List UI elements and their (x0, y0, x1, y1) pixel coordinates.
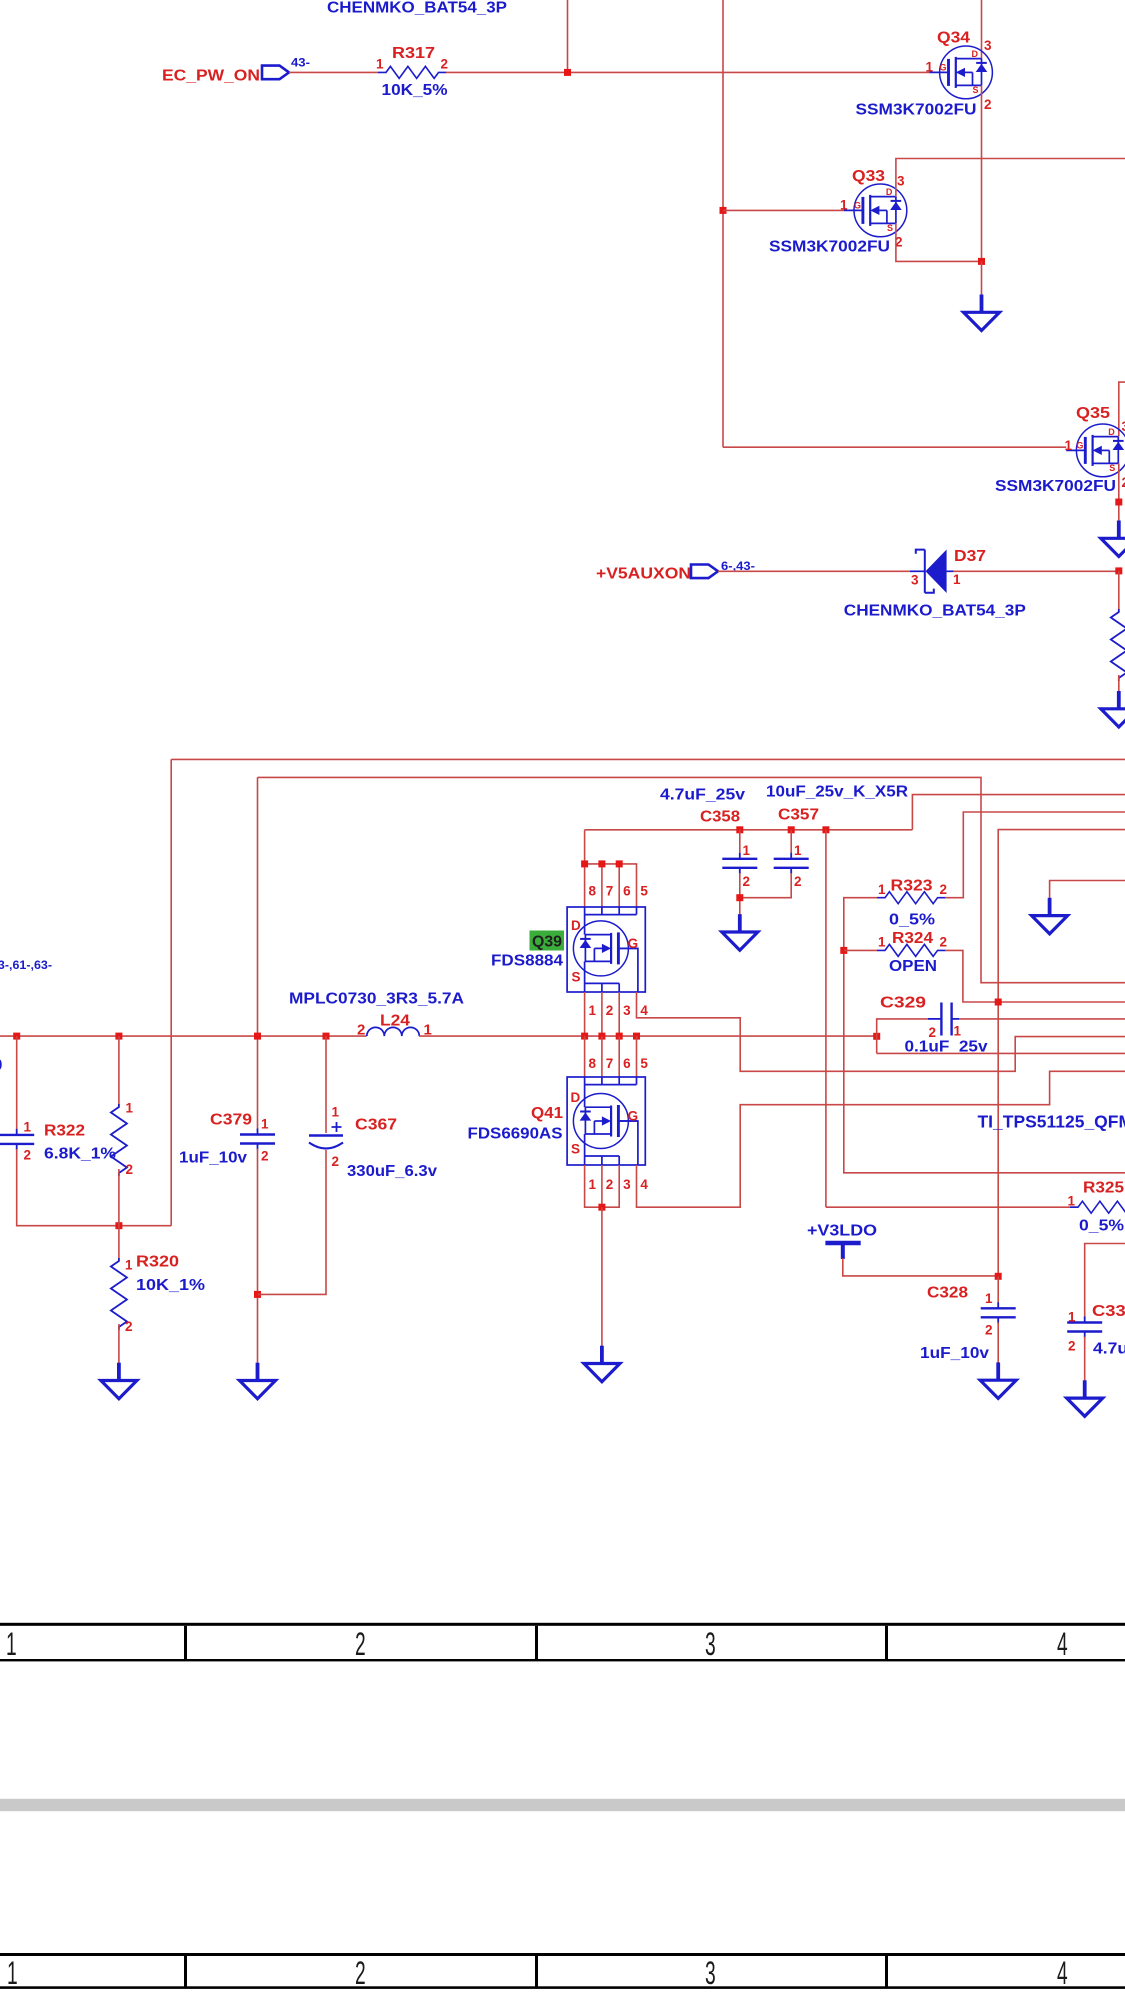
svg-text:3: 3 (984, 38, 992, 53)
svg-text:2: 2 (940, 882, 948, 897)
junction SW C379 (254, 1033, 261, 1040)
svg-text:G: G (940, 63, 947, 73)
junction V3LDO C328 (995, 1273, 1002, 1280)
svg-text:+V5AUXON: +V5AUXON (596, 566, 691, 583)
svg-text:SSM3K7002FU: SSM3K7002FU (856, 102, 977, 119)
wire R317 to Q34 gate (446, 71, 929, 73)
ground below C379 (240, 1363, 276, 1399)
transistor Q39 internal (573, 921, 637, 976)
svg-text:R323: R323 (891, 878, 933, 895)
junction at Q33 gate branch (720, 207, 727, 214)
svg-text:R320: R320 (136, 1254, 179, 1271)
capacitor C379 (240, 1129, 275, 1150)
svg-text:2: 2 (355, 1626, 366, 1662)
wire EC_PW_ON to R317 (289, 71, 378, 73)
svg-text:1: 1 (1068, 1310, 1076, 1325)
wire Q34 source down (981, 85, 983, 261)
wire rail y=777 (258, 777, 1125, 982)
svg-text:L24: L24 (380, 1013, 410, 1030)
svg-text:EC_PW_ON: EC_PW_ON (162, 68, 260, 85)
wire Q39 pin8 stub (584, 864, 586, 907)
wire to ground (981, 261, 983, 295)
wire Q39 pin1 stub (584, 992, 586, 1036)
svg-text:43-,61-,63-: 43-,61-,63- (0, 960, 52, 972)
wire L24 to Q39/Q41 pins (419, 1035, 877, 1037)
svg-text:2: 2 (357, 1022, 365, 1039)
capacitor C357 (774, 853, 809, 874)
wire R322 top lead (118, 1036, 120, 1104)
wire resistor to ground (1118, 675, 1120, 692)
diode D37 (910, 550, 954, 594)
wire R323 pin1 left (844, 898, 1125, 1173)
junction SW Q pin d (633, 1033, 640, 1040)
svg-text:10K_5%: 10K_5% (382, 82, 448, 99)
ground below R320 (101, 1363, 137, 1399)
wire C379 vertical x=257.5 (257, 777, 259, 1129)
wire V3LDO rail (998, 830, 1125, 1277)
port symbol +V5AUXON (691, 565, 718, 579)
wire +V5AUXON to D37 (718, 570, 910, 572)
wire Q39 pin3 stub (618, 992, 620, 1036)
resistor R323 (877, 892, 946, 904)
svg-text:1: 1 (24, 1120, 32, 1135)
wire Q35 gate (723, 446, 1066, 448)
wire Q41 source pins to ground (585, 1165, 620, 1207)
wire down to resistor (1118, 571, 1120, 609)
inductor L24 (367, 1027, 420, 1036)
svg-text:Q35: Q35 (1076, 405, 1110, 422)
svg-text:2: 2 (126, 1162, 134, 1177)
junction bottom rail (115, 1222, 122, 1229)
junction Q41 source (598, 1204, 605, 1211)
junction SW R322 (115, 1033, 122, 1040)
junction R325 branch (822, 826, 829, 833)
wire +V3LDO to C328 node (843, 1258, 998, 1276)
resistor R322 (111, 1104, 127, 1176)
resistor at right edge (cropped) (1111, 609, 1125, 681)
svg-text:2: 2 (261, 1149, 269, 1164)
svg-text:2: 2 (1122, 475, 1125, 490)
junction D37 output (1115, 567, 1122, 574)
svg-text:1: 1 (743, 843, 751, 858)
svg-text:2: 2 (940, 934, 948, 949)
svg-text:1: 1 (985, 1291, 993, 1306)
svg-text:Q33: Q33 (852, 168, 885, 185)
svg-text:2: 2 (332, 1154, 340, 1169)
svg-text:2: 2 (24, 1148, 32, 1163)
svg-text:R324: R324 (892, 930, 933, 947)
svg-text:C379: C379 (210, 1112, 252, 1129)
wire SW node main rail (0, 1035, 367, 1037)
svg-text:S: S (887, 223, 893, 233)
wire R322 bottom lead (118, 1169, 120, 1226)
wire C329 pin1 to chip (959, 1018, 1125, 1020)
svg-text:R322: R322 (44, 1123, 85, 1140)
svg-text:10uF_25v_K_X5R: 10uF_25v_K_X5R (766, 784, 908, 801)
wire C379 bottom lead (257, 1149, 259, 1364)
svg-text:1: 1 (126, 1101, 134, 1116)
ground right side (1032, 898, 1068, 934)
transistor Q35 (1066, 424, 1125, 477)
wire D37 to right edge node (954, 570, 1119, 572)
component box Q41 (567, 1077, 645, 1165)
svg-text:6: 6 (623, 884, 631, 899)
page gap gray bar (0, 1799, 1125, 1811)
svg-text:2: 2 (125, 1319, 133, 1334)
svg-text:G: G (854, 201, 861, 211)
junction R323/R324 left (840, 947, 847, 954)
wire C358 bottom lead (739, 873, 741, 915)
wire Q39 gate (pin4) route (637, 992, 1125, 1071)
svg-text:1: 1 (125, 1258, 133, 1273)
svg-text:D: D (886, 187, 893, 197)
svg-text:4: 4 (640, 1177, 648, 1192)
svg-text:3: 3 (705, 1626, 716, 1662)
svg-text:1: 1 (953, 572, 961, 587)
wire vertical x=723 from top to Q35 gate row (722, 0, 724, 447)
svg-text:1: 1 (954, 1024, 962, 1039)
capacitor C358 (722, 853, 757, 874)
wire C328 to ground (997, 1322, 999, 1363)
capacitor C329 (series) (928, 1003, 959, 1036)
junction pin6 (616, 860, 623, 867)
svg-text:C358: C358 (700, 809, 740, 826)
svg-text:0_5%: 0_5% (889, 912, 935, 929)
svg-text:G: G (1076, 441, 1083, 451)
resistor R325 (cropped) (1070, 1201, 1125, 1213)
port symbol EC_PW_ON (262, 66, 289, 80)
svg-text:C357: C357 (778, 807, 819, 824)
svg-text:1: 1 (376, 57, 384, 72)
svg-text:4.7uF_10: 4.7uF_10 (1093, 1341, 1125, 1358)
junction SW C329 (873, 1033, 880, 1040)
svg-text:D: D (571, 1090, 581, 1105)
wire ground branch right side (1050, 881, 1125, 899)
wire Q34 drain from top (981, 0, 983, 59)
wire cap top rail y=829.8 (585, 829, 913, 831)
junction Q33/Q34 source (978, 258, 985, 265)
svg-text:MPLC0730_3R3_5.7A: MPLC0730_3R3_5.7A (289, 991, 464, 1008)
svg-text:1: 1 (589, 1003, 597, 1018)
svg-text:C329: C329 (880, 995, 926, 1012)
svg-text:1uF_10v: 1uF_10v (179, 1150, 247, 1167)
svg-text:3: 3 (623, 1003, 631, 1018)
capacitor C367 (309, 1122, 343, 1149)
wire Q35 source down (1118, 463, 1120, 521)
page border row 2 (0, 1953, 1125, 1989)
svg-text:1: 1 (589, 1177, 597, 1192)
wire Q41 pin8 stub (584, 1036, 586, 1077)
svg-text:FDS8884: FDS8884 (491, 953, 563, 970)
svg-text:330uF_6.3v: 330uF_6.3v (347, 1163, 437, 1180)
svg-text:SSM3K7002FU: SSM3K7002FU (769, 239, 890, 256)
junction V3LDO/R324 (995, 999, 1002, 1006)
svg-text:4.7uF_25v: 4.7uF_25v (660, 787, 745, 804)
svg-text:G: G (628, 1109, 639, 1124)
ground below Q41 (584, 1346, 620, 1382)
wire Q41 pin5 stub (636, 1036, 638, 1077)
wire C330 to ground (1084, 1337, 1086, 1381)
wire vertical x=171 to bottom rail (170, 759, 172, 1225)
svg-text:1: 1 (261, 1117, 269, 1132)
wire C357 bottom lead (740, 873, 791, 898)
svg-text:D: D (1108, 427, 1115, 437)
wire stub top at x=567.5 (567, 0, 569, 72)
svg-text:5: 5 (640, 884, 648, 899)
capacitor C328 (981, 1302, 1016, 1323)
svg-text:OPEN: OPEN (889, 958, 937, 975)
junction SW Q pin b (598, 1033, 605, 1040)
transistor Q33 (844, 184, 907, 237)
svg-text:4: 4 (640, 1003, 648, 1018)
wire C328 top lead (997, 1276, 999, 1304)
wire Q41 ground lead (601, 1207, 603, 1346)
svg-text:1: 1 (794, 843, 802, 858)
junction C358 top (736, 826, 743, 833)
svg-text:2: 2 (441, 56, 449, 71)
svg-text:1: 1 (878, 882, 886, 897)
wire R323 pin2 right (945, 812, 1125, 898)
svg-text:D: D (571, 918, 581, 933)
svg-text:C328: C328 (927, 1285, 968, 1302)
ground below Q35 (1101, 521, 1125, 557)
svg-text:3: 3 (911, 573, 919, 588)
svg-text:4: 4 (1057, 1626, 1068, 1662)
svg-text:1: 1 (7, 1955, 18, 1991)
svg-text:+V3LDO: +V3LDO (807, 1223, 877, 1240)
wire Q35 drain up and right (1119, 382, 1125, 436)
svg-text:S: S (571, 1142, 580, 1157)
wire Q41 gate (pin4) route (637, 1071, 1125, 1207)
highlight Q39 (530, 931, 565, 951)
wire SW sense to chip (877, 1052, 1125, 1054)
svg-text:0: 0 (0, 1057, 3, 1074)
svg-text:3: 3 (705, 1955, 716, 1991)
svg-text:R325: R325 (1083, 1180, 1124, 1197)
ground below C358/C357 (722, 914, 758, 950)
svg-text:2: 2 (355, 1955, 366, 1991)
wire Q41 pin6 stub (618, 1036, 620, 1077)
svg-text:6: 6 (623, 1056, 631, 1071)
wire Q41 pin7 stub (601, 1036, 603, 1077)
wire SW to C329 pin2 (877, 1019, 928, 1054)
junction C357 top (788, 826, 795, 833)
junction C358 bottom (736, 894, 743, 901)
junction SW Q pin a (581, 1033, 588, 1040)
junction SW C367 (323, 1033, 330, 1040)
svg-text:2: 2 (794, 874, 802, 889)
ground below C330 (1067, 1380, 1103, 1416)
svg-text:D37: D37 (954, 548, 986, 565)
wire left cap bottom lead (17, 1149, 172, 1226)
wire Q39 pin2 stub (601, 992, 603, 1036)
ground below Q33/Q34 (964, 295, 1000, 331)
svg-text:Q34: Q34 (937, 30, 970, 47)
svg-text:S: S (973, 85, 979, 95)
svg-text:1: 1 (840, 198, 848, 213)
wire Q33 gate (723, 209, 844, 211)
svg-text:2: 2 (606, 1003, 614, 1018)
svg-text:2: 2 (985, 1323, 993, 1338)
svg-text:10K_1%: 10K_1% (136, 1277, 205, 1294)
svg-text:1: 1 (1065, 438, 1073, 453)
junction Q35 source (1115, 499, 1122, 506)
svg-text:S: S (1109, 463, 1115, 473)
svg-text:TI_TPS51125_QFM20: TI_TPS51125_QFM20 (978, 1112, 1125, 1132)
svg-text:CHENMKO_BAT54_3P: CHENMKO_BAT54_3P (844, 603, 1026, 620)
wire rail y=794.6 (912, 795, 1125, 830)
svg-text:3: 3 (897, 174, 905, 189)
ground below right resistor (1101, 691, 1125, 727)
svg-text:8: 8 (589, 1056, 597, 1071)
svg-text:Q41: Q41 (531, 1105, 563, 1122)
wire to R325 (826, 1206, 1078, 1208)
wire Q33 drain up and right (896, 159, 1125, 197)
resistor R320 (111, 1258, 127, 1330)
wire Q33 source down and right (896, 223, 982, 261)
svg-text:2: 2 (1068, 1339, 1076, 1354)
svg-text:2: 2 (743, 874, 751, 889)
svg-text:7: 7 (606, 1056, 614, 1071)
svg-text:3: 3 (1122, 419, 1125, 434)
wire Q39 pin6 stub (618, 864, 620, 907)
junction SW Q pin c (616, 1033, 623, 1040)
wire Q39 drain feed (585, 830, 637, 907)
svg-text:4: 4 (1057, 1955, 1068, 1991)
svg-text:R317: R317 (392, 45, 435, 62)
svg-text:1: 1 (878, 934, 886, 949)
wire C358 top lead (739, 830, 741, 853)
wire C367 top lead (325, 1036, 327, 1133)
wire R324 pin1 left (844, 949, 877, 951)
resistor R317 (378, 66, 447, 78)
junction (564, 69, 571, 76)
wire left cap top lead (16, 1036, 18, 1130)
transistor Q41 internal (573, 1094, 637, 1149)
svg-text:0_5%: 0_5% (1079, 1218, 1124, 1235)
svg-text:1: 1 (332, 1105, 340, 1120)
wire C330 feed (1085, 1244, 1125, 1319)
svg-text:43-: 43- (291, 58, 310, 70)
svg-text:5: 5 (640, 1056, 648, 1071)
svg-text:CHENMKO_BAT54_3P: CHENMKO_BAT54_3P (327, 0, 507, 17)
svg-text:1uF_10v: 1uF_10v (920, 1345, 989, 1362)
wire Q39 pin7 stub (601, 864, 603, 907)
capacitor at left edge (cropped) (0, 1129, 34, 1150)
svg-text:2: 2 (984, 97, 992, 112)
svg-text:FDS6690AS: FDS6690AS (468, 1126, 563, 1143)
svg-text:1: 1 (926, 60, 934, 75)
svg-text:C367: C367 (355, 1117, 397, 1134)
wire VIN top rail y=759 (171, 758, 1125, 760)
wire C357 top lead (790, 830, 792, 853)
svg-text:G: G (628, 936, 639, 951)
wire C367 bottom lead (258, 1150, 327, 1294)
svg-text:6.8K_1%: 6.8K_1% (44, 1146, 116, 1163)
svg-text:Q39: Q39 (532, 934, 562, 951)
page border row 1 (0, 1623, 1125, 1662)
svg-text:1: 1 (1068, 1194, 1076, 1209)
ground below C328 (980, 1362, 1016, 1398)
junction C379/C367 (254, 1291, 261, 1298)
wire R325 vertical x=825.9 (825, 830, 827, 1207)
wire R320 top lead (118, 1226, 120, 1258)
capacitor C330 (1067, 1317, 1102, 1338)
svg-text:2: 2 (606, 1177, 614, 1192)
svg-text:1: 1 (6, 1626, 17, 1662)
resistor R324 (877, 944, 946, 956)
component box Q39 (567, 907, 645, 992)
svg-text:S: S (572, 969, 581, 984)
transistor Q34 (929, 46, 992, 99)
wire R324 pin2 right (945, 950, 1125, 1002)
svg-text:3: 3 (623, 1177, 631, 1192)
wire R320 to ground (118, 1324, 120, 1363)
svg-text:8: 8 (589, 884, 597, 899)
svg-text:C330: C330 (1092, 1303, 1125, 1320)
svg-text:D: D (972, 49, 979, 59)
junction SW left cap (13, 1033, 20, 1040)
svg-text:7: 7 (606, 884, 614, 899)
svg-text:SSM3K7002FU: SSM3K7002FU (995, 478, 1116, 495)
junction pin8 (581, 860, 588, 867)
junction pin7 (598, 860, 605, 867)
